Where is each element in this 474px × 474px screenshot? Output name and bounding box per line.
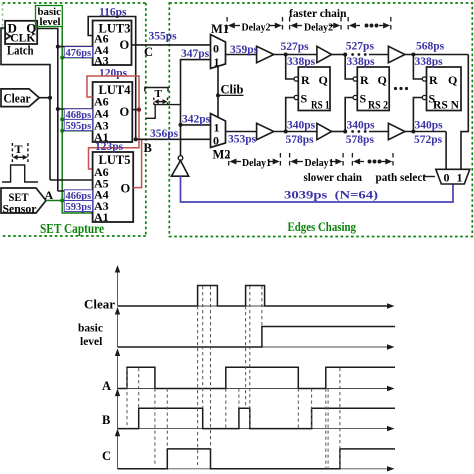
svg-text:578ps: 578ps bbox=[286, 134, 315, 146]
node M2.1 junction bbox=[179, 123, 183, 127]
RS1 flip-flop bbox=[284, 53, 330, 134]
RS2 flip-flop bbox=[343, 53, 389, 134]
wire Clear to LUT5.A5 bbox=[50, 179, 93, 181]
svg-text:3039ps (N=64): 3039ps (N=64) bbox=[284, 188, 378, 202]
svg-text:R: R bbox=[429, 73, 438, 87]
svg-text:0: 0 bbox=[444, 171, 450, 185]
wire A from sensor bbox=[46, 200, 93, 202]
axis Clear bbox=[118, 269, 390, 306]
annotation dots bottom bbox=[352, 153, 393, 169]
label 468ps boxed bbox=[64, 109, 92, 121]
svg-text:Q: Q bbox=[319, 73, 328, 87]
svg-text:Clib: Clib bbox=[221, 83, 244, 97]
svg-text:340ps: 340ps bbox=[287, 120, 316, 132]
svg-text:0: 0 bbox=[213, 134, 219, 148]
svg-text:Delay1: Delay1 bbox=[305, 157, 334, 169]
waveform basic level bbox=[118, 327, 396, 348]
svg-text:Delay1: Delay1 bbox=[242, 157, 271, 169]
svg-text:347ps: 347ps bbox=[181, 48, 210, 60]
buffer slow 3 bbox=[388, 123, 405, 139]
svg-text:338ps: 338ps bbox=[415, 56, 444, 68]
svg-text:Sensor: Sensor bbox=[3, 202, 38, 216]
svg-text:O: O bbox=[120, 105, 130, 119]
T pulse annotation (Clib) bbox=[145, 88, 181, 119]
svg-text:568ps: 568ps bbox=[416, 41, 445, 53]
svg-text:Clear: Clear bbox=[84, 297, 115, 312]
Edges Chasing dashed border box bbox=[169, 3, 472, 237]
svg-text:CLK: CLK bbox=[10, 31, 36, 45]
SET Sensor input flag bbox=[1, 188, 46, 216]
node Clib bbox=[216, 93, 220, 97]
RSN flip-flop bbox=[411, 53, 461, 134]
svg-text:Clear: Clear bbox=[4, 91, 31, 106]
waveform B bbox=[118, 408, 396, 428]
svg-text:S: S bbox=[360, 92, 367, 106]
svg-text:Q: Q bbox=[378, 73, 387, 87]
svg-text:R: R bbox=[301, 73, 310, 87]
waveform C bbox=[118, 449, 396, 469]
waveform A bbox=[118, 367, 396, 388]
svg-text:O: O bbox=[120, 38, 130, 52]
svg-text:level: level bbox=[80, 336, 102, 348]
blue wire 3039ps path select loop bbox=[181, 176, 454, 202]
wire red LUT4.O down to LUT5.A6 bbox=[89, 110, 140, 169]
wire latch D feedback from Clear net bbox=[1, 28, 50, 180]
svg-text:basic: basic bbox=[78, 323, 103, 335]
basic level label with green box bbox=[36, 6, 63, 29]
svg-text:353ps: 353ps bbox=[228, 134, 257, 146]
svg-text:level: level bbox=[40, 17, 61, 28]
axis basic level bbox=[118, 311, 390, 347]
svg-text:1: 1 bbox=[214, 121, 220, 135]
axis C bbox=[118, 433, 390, 469]
svg-text:slower chain: slower chain bbox=[304, 170, 363, 184]
svg-text:593ps: 593ps bbox=[66, 202, 92, 213]
svg-text:M1: M1 bbox=[211, 22, 229, 36]
inverter on B path bbox=[178, 156, 183, 161]
svg-text:faster chain: faster chain bbox=[289, 6, 347, 20]
LUT4 box bbox=[93, 82, 133, 144]
wire slow chain bbox=[226, 131, 447, 133]
svg-text:RS 2: RS 2 bbox=[368, 100, 388, 112]
svg-text:Latch: Latch bbox=[7, 44, 34, 58]
wire A green vertical bbox=[62, 27, 92, 214]
svg-text:340ps: 340ps bbox=[415, 120, 444, 132]
wire slow chain to mux input 0 bbox=[445, 132, 447, 170]
svg-text:B: B bbox=[144, 141, 152, 155]
wire M2 input 1 bbox=[181, 124, 211, 126]
LUT5 box bbox=[93, 152, 134, 224]
wire red LUT5.O up to node B bbox=[133, 139, 141, 187]
svg-text:A3: A3 bbox=[94, 54, 109, 68]
svg-text:M2: M2 bbox=[213, 148, 231, 162]
buffer slow 2 bbox=[317, 123, 332, 139]
wire basic to LUT5.A4 bbox=[58, 190, 93, 192]
wire fast chain bbox=[226, 54, 469, 56]
svg-text:Delay2: Delay2 bbox=[304, 22, 333, 34]
node Clear junction bbox=[48, 96, 52, 100]
svg-text:O: O bbox=[121, 182, 131, 196]
waveform Clear bbox=[118, 286, 390, 307]
buffer fast 2 bbox=[317, 46, 332, 62]
svg-text:RS 1: RS 1 bbox=[311, 100, 330, 112]
svg-text:595ps: 595ps bbox=[66, 121, 92, 132]
svg-text:578ps: 578ps bbox=[346, 134, 375, 146]
wire red feedback LUT4.O to LUT4.A6 bbox=[87, 76, 139, 110]
svg-text:572ps: 572ps bbox=[414, 134, 443, 146]
annotation Delay2 row bbox=[227, 17, 282, 33]
wire LUT4.O stub bbox=[132, 109, 139, 111]
wire Clib select bbox=[217, 67, 219, 118]
wire A to LUT4.A1 bbox=[62, 130, 92, 132]
wire A to LUT4.A3 bbox=[62, 118, 92, 120]
svg-text:Delay2: Delay2 bbox=[242, 22, 271, 34]
wire fast chain to mux input 1 bbox=[461, 55, 468, 170]
svg-text:A: A bbox=[102, 379, 111, 393]
svg-text:356ps: 356ps bbox=[150, 128, 179, 140]
node B junction bbox=[134, 137, 138, 141]
svg-text:T: T bbox=[15, 142, 23, 156]
svg-text:A1: A1 bbox=[94, 210, 109, 224]
annotation dots top bbox=[348, 17, 391, 33]
wire A to LUT3.A3 bbox=[62, 57, 92, 59]
wire basic to LUT3.A4 bbox=[58, 46, 93, 48]
mux M2 bbox=[211, 114, 226, 148]
buffer fast 1 bbox=[257, 46, 274, 62]
dots fast chain bbox=[351, 53, 366, 56]
axis A bbox=[118, 353, 390, 389]
svg-text:527ps: 527ps bbox=[346, 41, 375, 53]
wire basic to LUT4.A4 bbox=[58, 108, 93, 110]
wire B feedback loop into LUT3.A6 bbox=[88, 17, 136, 140]
svg-text:T: T bbox=[155, 88, 163, 100]
SET Capture dashed border box bbox=[3, 3, 146, 236]
svg-text:359ps: 359ps bbox=[230, 44, 259, 56]
wire C from LUT3.O to M1 input 0 bbox=[132, 44, 211, 46]
buffer slow 1 bbox=[257, 123, 274, 139]
svg-text:0: 0 bbox=[213, 42, 219, 56]
label 593ps boxed bbox=[64, 201, 92, 214]
node LUT4.O junction bbox=[137, 108, 141, 112]
svg-text:123ps: 123ps bbox=[95, 141, 124, 153]
mux path select bbox=[436, 169, 470, 184]
svg-text:527ps: 527ps bbox=[281, 41, 310, 53]
svg-text:476ps: 476ps bbox=[66, 48, 92, 59]
node A junction at LUT5.A3 bbox=[60, 199, 64, 203]
mux M1 bbox=[211, 35, 226, 69]
dots slow chain bbox=[351, 130, 366, 133]
buffer fast 3 bbox=[388, 46, 405, 62]
svg-text:338ps: 338ps bbox=[287, 56, 316, 68]
svg-text:S: S bbox=[301, 92, 308, 106]
svg-text:Edges Chasing: Edges Chasing bbox=[288, 220, 357, 234]
svg-text:path select: path select bbox=[376, 170, 427, 184]
svg-text:B: B bbox=[102, 413, 110, 427]
axis B bbox=[118, 393, 390, 429]
T pulse annotation (SET) bbox=[2, 143, 38, 182]
dots between RS2 and RSN bbox=[394, 87, 408, 90]
LUT3 box bbox=[93, 21, 132, 68]
svg-text:338ps: 338ps bbox=[347, 56, 376, 68]
dashed timing guides bbox=[127, 286, 340, 469]
wire B to M2 input 0 bbox=[136, 138, 211, 140]
label 476ps boxed bbox=[64, 47, 92, 59]
svg-text:C: C bbox=[144, 45, 153, 59]
svg-text:342ps: 342ps bbox=[182, 114, 211, 126]
svg-text:1: 1 bbox=[457, 171, 463, 185]
annotation Delay1 row bbox=[229, 153, 281, 169]
svg-text:C: C bbox=[102, 449, 111, 463]
label 595ps boxed bbox=[64, 119, 92, 132]
svg-text:R: R bbox=[360, 73, 369, 87]
svg-text:355ps: 355ps bbox=[149, 31, 178, 43]
svg-text:340ps: 340ps bbox=[347, 120, 376, 132]
svg-text:RS N: RS N bbox=[433, 100, 460, 112]
svg-text:120ps: 120ps bbox=[99, 68, 128, 80]
latch D/CLK box bbox=[5, 21, 37, 44]
label 466ps boxed bbox=[64, 190, 92, 202]
wire Clear to vertical bbox=[39, 97, 50, 99]
svg-text:Q: Q bbox=[448, 73, 457, 87]
Clear input flag bbox=[1, 89, 39, 107]
wire M1 input 1 vertical bbox=[181, 60, 211, 156]
wire latch Q to basic-level vertical bbox=[37, 29, 58, 192]
